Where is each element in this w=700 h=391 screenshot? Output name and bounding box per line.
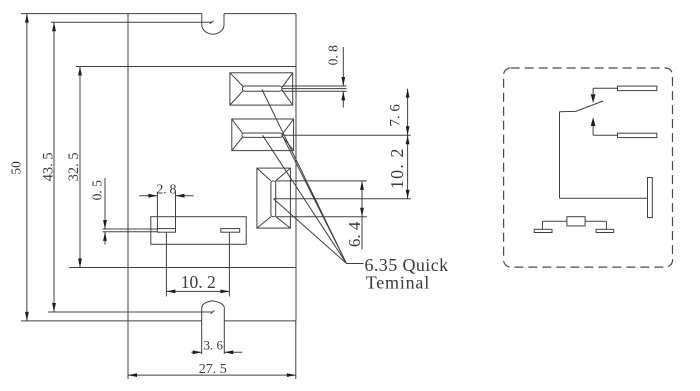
- schematic dashed enclosure: [504, 68, 673, 267]
- schematic: NC contact arrow (up): [591, 117, 596, 126]
- relay body outline: left edge: [127, 14, 129, 321]
- relay body mounting tab (bottom): [202, 301, 225, 354]
- dimension 50: [26, 14, 28, 321]
- schematic: NC contact wire: [593, 126, 617, 135]
- svg-text:3. 6: 3. 6: [203, 338, 223, 353]
- svg-text:Teminal: Teminal: [366, 273, 430, 293]
- svg-text:6. 4: 6. 4: [345, 221, 364, 247]
- quick terminal T2: blade edge line: [282, 134, 411, 136]
- quick terminal T2: funnel diagonals: [232, 119, 294, 151]
- relay body outline: top edge: [21, 13, 296, 15]
- svg-text:43. 5: 43. 5: [41, 152, 57, 181]
- dimension 7.6: [407, 89, 409, 136]
- dimension 6.4: [361, 181, 363, 250]
- extension line for 32.5 bottom: [69, 267, 296, 269]
- dimension 27.5: [128, 321, 296, 379]
- quick terminal T2: slot: [242, 133, 282, 137]
- leader lines to 6.35 quick terminal label: [262, 90, 364, 264]
- svg-text:10. 2: 10. 2: [181, 272, 216, 292]
- relay body outline: right edge: [295, 14, 297, 321]
- quick terminal T1: slot: [243, 86, 283, 91]
- quick terminal T1: funnel diagonals: [230, 73, 293, 105]
- quick terminal T3: blade edge lines: [274, 181, 411, 217]
- svg-text:0. 5: 0. 5: [89, 180, 104, 201]
- schematic: NC contact terminal bar: [618, 133, 657, 137]
- dimension 10.2 (right): [407, 135, 409, 199]
- quick terminal T3: slot: [271, 181, 276, 217]
- svg-text:50: 50: [9, 161, 24, 175]
- dimension 43.5: [53, 22, 55, 312]
- dimension 0.5: [104, 178, 106, 245]
- schematic: NO contact terminal bar: [618, 86, 657, 91]
- schematic: coil right terminal foot: [596, 229, 614, 232]
- schematic: coil: [567, 217, 585, 226]
- schematic: common pole wire: [560, 112, 648, 198]
- dimension 3.6: [191, 351, 242, 353]
- coil base block: [151, 217, 246, 245]
- quick terminal T1: blade edge lines: [282, 86, 347, 91]
- dimension 10.2 (bottom): [166, 232, 229, 296]
- svg-text:10. 2: 10. 2: [387, 147, 407, 189]
- relay body cover step line (upper): [51, 21, 214, 24]
- svg-text:32. 5: 32. 5: [66, 152, 82, 181]
- schematic: common terminal bar (vertical): [648, 178, 653, 218]
- relay body base line: [48, 311, 214, 314]
- quick terminal T1 (top): outer funnel: [230, 73, 293, 105]
- quick terminal T3 (bottom, vertical): outer funnel: [257, 168, 291, 228]
- quick terminal T2 (middle): outer funnel: [232, 119, 294, 151]
- svg-text:27. 5: 27. 5: [199, 362, 227, 377]
- schematic: NO contact wire: [593, 88, 617, 94]
- svg-text:7. 6: 7. 6: [388, 104, 404, 127]
- dimension 0.8: [342, 47, 344, 108]
- svg-text:0. 8: 0. 8: [326, 45, 341, 65]
- schematic: coil left lead: [542, 221, 567, 229]
- dimension 32.5: [79, 67, 81, 268]
- relay body outline: bottom edge: [21, 320, 296, 322]
- schematic: armature lever: [560, 101, 604, 112]
- schematic: NO contact arrow (down): [591, 94, 596, 103]
- quick terminal T3: funnel diagonals: [257, 168, 291, 228]
- coil terminal slot right: [221, 229, 240, 233]
- schematic: coil left terminal foot: [534, 229, 552, 232]
- coil terminal slot left: [157, 229, 175, 233]
- relay body outline: mounting notch (top): [202, 14, 224, 35]
- relay body cover step line (lower): [76, 66, 296, 68]
- dimension 2.8: [139, 192, 193, 228]
- coil terminal blade edge lines: [103, 229, 158, 232]
- schematic: coil right lead: [585, 221, 606, 229]
- svg-text:2. 8: 2. 8: [156, 182, 176, 197]
